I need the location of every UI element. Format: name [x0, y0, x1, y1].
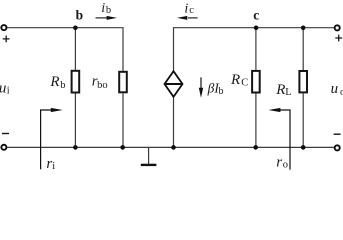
output resistance arrow r_o	[279, 110, 290, 170]
svg-text:o: o	[283, 160, 288, 171]
label - right	[334, 134, 341, 135]
wire top-left rail from input terminal through node b, corner down into r_bo	[7, 28, 123, 71]
wire R_C branch top lead	[255, 28, 257, 70]
ground	[148, 147, 150, 164]
controlled source current arrow beta*I_b	[200, 77, 202, 89]
node source bottom junction dot	[171, 145, 176, 150]
node b junction dot	[73, 26, 78, 31]
svg-text:i: i	[101, 1, 105, 16]
current arrow i_c	[188, 17, 198, 19]
controlled current source diamond	[165, 71, 183, 97]
wire r_bo bottom lead	[122, 93, 124, 147]
wire controlled-source bottom lead	[173, 97, 175, 148]
svg-text:R: R	[49, 74, 59, 90]
terminal bottom-left	[1, 145, 6, 150]
node R_L bottom junction dot	[301, 145, 306, 150]
svg-text:b: b	[219, 86, 224, 97]
resistor R_L	[299, 71, 307, 92]
svg-text:i: i	[184, 2, 188, 17]
resistor R_b	[72, 71, 80, 93]
svg-text:u: u	[331, 81, 339, 97]
svg-text:R: R	[230, 72, 240, 88]
node R_C bottom junction dot	[253, 145, 258, 150]
current arrow i_b	[96, 17, 108, 19]
node R_b bottom junction dot	[73, 145, 78, 150]
svg-text:i: i	[7, 85, 10, 96]
svg-text:c: c	[189, 5, 194, 16]
svg-text:c: c	[253, 7, 259, 22]
wire R_b branch bottom lead	[74, 94, 76, 148]
label + right	[335, 35, 342, 42]
terminal bottom-right	[335, 145, 340, 150]
svg-text:i: i	[52, 161, 55, 172]
svg-text:C: C	[241, 78, 248, 89]
node c junction dot	[254, 26, 259, 31]
terminal top-right	[335, 25, 340, 30]
svg-text:u: u	[0, 80, 6, 96]
wire R_L branch top lead	[302, 28, 304, 70]
input resistance arrow r_i	[41, 110, 52, 169]
node R_L top junction dot	[301, 26, 306, 31]
wire R_C branch bottom lead	[255, 94, 257, 148]
resistor R_C	[252, 71, 260, 93]
wire R_L branch bottom lead	[302, 93, 304, 147]
wire R_b branch top lead	[74, 28, 76, 70]
svg-text:L: L	[285, 87, 291, 98]
label - left	[2, 133, 9, 134]
resistor r_bo	[119, 72, 127, 93]
wire top-right rail from current-source corner through node c to output terminal	[174, 28, 335, 71]
label + left	[3, 36, 10, 43]
controlled current source middle bar	[165, 83, 183, 85]
svg-text:r: r	[276, 154, 282, 170]
svg-text:b: b	[60, 80, 65, 91]
terminal top-left	[1, 25, 6, 30]
svg-text:b: b	[76, 7, 84, 22]
svg-text:b: b	[106, 5, 111, 16]
svg-text:R: R	[275, 82, 285, 98]
svg-text:bo: bo	[97, 80, 108, 91]
wire bottom emitter rail	[7, 146, 334, 148]
node r_bo bottom junction dot	[120, 145, 125, 150]
